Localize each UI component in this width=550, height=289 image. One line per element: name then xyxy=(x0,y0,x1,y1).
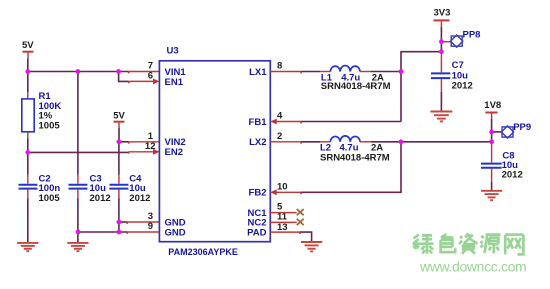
wire LX2 to L2 xyxy=(301,141,320,143)
pin 9 GND xyxy=(127,231,159,233)
wire C3 to gnd junction xyxy=(77,199,79,243)
wire C2 to ground xyxy=(27,199,29,243)
svg-text:SRN4018-4R7M: SRN4018-4R7M xyxy=(320,153,390,164)
svg-text:U3: U3 xyxy=(167,46,179,57)
wire to PP9 xyxy=(492,131,502,133)
svg-text:8: 8 xyxy=(277,61,282,72)
svg-text:13: 13 xyxy=(277,222,288,233)
svg-text:PP8: PP8 xyxy=(463,30,481,41)
wire 5V stub to rail xyxy=(27,59,29,72)
svg-text:10: 10 xyxy=(277,182,288,193)
no-connect X NC2 xyxy=(297,219,304,225)
test point PP8 xyxy=(451,30,481,48)
svg-text:FB2: FB2 xyxy=(249,188,267,199)
wire to PP8 xyxy=(441,41,451,43)
pin 8 LX1 xyxy=(270,71,301,73)
svg-text:1V8: 1V8 xyxy=(484,100,501,111)
svg-text:2012: 2012 xyxy=(129,193,150,204)
wire node to C8 xyxy=(401,141,492,143)
pin 12 EN2 xyxy=(129,149,160,155)
svg-text:LX2: LX2 xyxy=(249,137,266,148)
wire C4 column xyxy=(118,142,120,175)
pin origin ticks xyxy=(126,72,302,234)
svg-text:12: 12 xyxy=(145,141,156,152)
wire C7 to ground xyxy=(440,92,442,111)
svg-text:5V: 5V xyxy=(113,111,125,122)
svg-text:C7: C7 xyxy=(452,60,464,71)
junction node 1V8 / L2 xyxy=(399,139,404,144)
capacitor C7 xyxy=(431,52,473,92)
svg-text:PAM2306AYPKE: PAM2306AYPKE xyxy=(168,247,238,257)
svg-text:2012: 2012 xyxy=(502,169,523,180)
svg-text:www.downcc.com: www.downcc.com xyxy=(419,259,526,275)
pin 2 LX2 xyxy=(270,141,301,143)
svg-text:EN1: EN1 xyxy=(165,77,184,88)
junction 3V3 / C7 xyxy=(439,49,444,54)
junction 1V8 / PP9 xyxy=(489,130,494,135)
power port 1V8 xyxy=(484,100,501,119)
pin 5 NC1 xyxy=(270,212,296,214)
junction 1V8 / C8 xyxy=(489,139,494,144)
junction 5V rail / R1 xyxy=(25,69,30,74)
svg-text:FB1: FB1 xyxy=(249,117,268,128)
svg-text:2: 2 xyxy=(277,131,282,142)
test point PP9 xyxy=(501,122,531,138)
pin 3 GND xyxy=(119,221,159,223)
pin 7 VIN1 xyxy=(129,71,160,73)
resistor R1 xyxy=(22,91,62,139)
wire 3V3 riser xyxy=(401,52,441,122)
wire L1 to node xyxy=(371,71,401,73)
wire top 5V rail xyxy=(28,71,129,73)
junction C4 / GND9 xyxy=(117,230,122,235)
wire 3V3 to node xyxy=(440,27,442,52)
ground (C7) xyxy=(430,112,452,122)
ground (C8) xyxy=(481,191,502,200)
svg-text:9: 9 xyxy=(148,221,153,232)
junction 5V / VIN2 xyxy=(117,139,122,144)
svg-text:6: 6 xyxy=(148,71,153,82)
svg-text:2012: 2012 xyxy=(452,81,473,92)
svg-text:4: 4 xyxy=(277,111,283,122)
junction 3V3 / PP8 xyxy=(439,39,444,44)
pin 4 FB1 xyxy=(270,119,301,125)
junction C3 / GND9 row xyxy=(76,230,81,235)
junction R1 bottom / EN2 row xyxy=(25,150,30,155)
svg-text:EN2: EN2 xyxy=(165,147,183,158)
ground (PAD) xyxy=(301,242,322,251)
junction 5V rail / EN1 xyxy=(116,69,121,74)
no-connect X NC1 xyxy=(297,209,304,215)
资 xyxy=(459,233,477,254)
capacitor C4 xyxy=(109,173,150,204)
wire C4 to GND pins xyxy=(118,199,120,233)
ground (C3) xyxy=(67,243,88,251)
junction 5V rail / C3 xyxy=(76,69,81,74)
capacitor C8 xyxy=(481,142,523,182)
svg-text:PAD: PAD xyxy=(247,228,266,239)
wire L2 to node xyxy=(371,141,401,143)
svg-text:GND: GND xyxy=(165,227,186,238)
wire R1 column upper xyxy=(27,72,29,93)
svg-text:3V3: 3V3 xyxy=(434,8,451,19)
svg-text:1005: 1005 xyxy=(39,193,61,204)
power port 3V3 xyxy=(434,8,451,27)
pin 6 EN1 xyxy=(129,79,160,85)
IC U3 PAM2306AYPKE xyxy=(159,46,270,258)
svg-text:5V: 5V xyxy=(22,40,34,51)
网 xyxy=(505,235,523,255)
wire PAD to ground xyxy=(300,232,312,241)
wire GND9 row xyxy=(78,231,127,233)
色 xyxy=(441,234,456,252)
wire LX1 to L1 xyxy=(301,71,320,73)
ground (C2) xyxy=(17,243,38,251)
wire C3 column xyxy=(77,72,79,175)
capacitor C2 xyxy=(19,173,61,204)
watermark CJK green text xyxy=(413,233,524,254)
capacitor C3 xyxy=(69,173,111,204)
pin 11 NC2 xyxy=(270,221,296,223)
wire C8 to ground xyxy=(491,182,493,190)
svg-text:PP9: PP9 xyxy=(513,122,531,133)
wire 5V to VIN2 junction xyxy=(118,128,120,142)
wire R1 bottom to junction xyxy=(27,139,29,153)
wire 1V8 to node xyxy=(491,119,493,142)
wire EN1 drop xyxy=(119,72,129,82)
svg-text:2012: 2012 xyxy=(90,193,111,204)
inductor L2 xyxy=(320,136,390,164)
junction C4 / GND3 xyxy=(117,220,122,225)
源 xyxy=(481,235,501,254)
绿 xyxy=(413,234,434,254)
wire EN2 row xyxy=(28,151,129,153)
svg-text:1005: 1005 xyxy=(39,121,61,132)
svg-text:SRN4018-4R7M: SRN4018-4R7M xyxy=(321,81,391,92)
power port 5V (middle) xyxy=(113,111,125,128)
power port 5V (top left) xyxy=(22,40,34,58)
junction node 3V3 / L1 xyxy=(399,69,404,74)
wire FB2 riser xyxy=(301,142,401,193)
wire C2 column xyxy=(27,152,29,174)
inductor L1 xyxy=(320,66,390,93)
pin 13 PAD xyxy=(270,231,300,233)
wire FB1 xyxy=(301,121,401,123)
pin 10 FB2 xyxy=(270,189,301,195)
pin 1 VIN2 xyxy=(119,141,159,143)
svg-text:LX1: LX1 xyxy=(249,67,267,78)
